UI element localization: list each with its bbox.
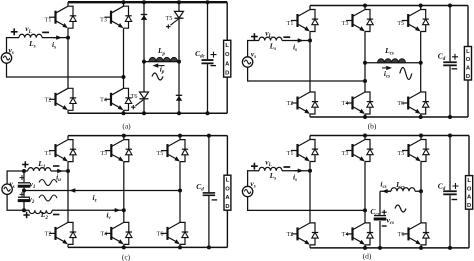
node: leg1 midpoint junction — [66, 36, 70, 40]
svg-text:D: D — [225, 204, 229, 210]
svg-text:T5: T5 — [157, 151, 164, 157]
capacitor Cd branch wire — [208, 136, 210, 248]
capacitor C1 — [18, 182, 30, 184]
inductor Ls — [259, 167, 282, 170]
svg-text:(c): (c) — [122, 253, 131, 261]
node: aux branch 1 / Lp junction — [142, 60, 146, 64]
IGBT T6 with antiparallel diode — [179, 218, 181, 222]
IGBT T2 with antiparallel diode — [309, 88, 311, 92]
svg-text:(b): (b) — [368, 122, 377, 131]
IGBT T1 with antiparallel diode — [67, 136, 69, 140]
wire: load connection verticals — [468, 136, 470, 248]
sine symbol for ics — [400, 68, 412, 80]
wire: capacitor string vertical — [23, 171, 25, 210]
wire: (a) bottom DC rail — [68, 112, 227, 114]
wire: (b) bottom DC rail — [310, 116, 468, 118]
svg-text:L: L — [225, 43, 229, 49]
wire: (d) top DC rail — [310, 135, 469, 137]
polarity labels for L2 — [23, 212, 29, 218]
label vL with polarity — [11, 28, 18, 35]
node: top rail junctions — [122, 134, 126, 138]
IGBT T5 with antiparallel diode — [420, 136, 422, 140]
node: capacitor bottom tap — [22, 208, 26, 212]
svg-text:T2: T2 — [287, 101, 294, 107]
capacitor Cdc — [202, 59, 214, 61]
AC source vs — [2, 184, 12, 194]
wire: source bottom lead to leg2 — [248, 67, 365, 81]
IGBT T2 with antiparallel diode — [67, 218, 69, 222]
wire: Lp horizontal link — [144, 61, 179, 63]
IGBT T5 with antiparallel diode — [179, 136, 181, 140]
current arrow ics — [386, 66, 392, 70]
capacitor C2 — [18, 196, 30, 198]
current arrow ics (pointing left) — [382, 189, 388, 193]
inductor L2 (bumps down) — [29, 210, 52, 213]
node: bottom rail junctions — [363, 246, 367, 250]
current arrow iz (pointing left) — [70, 188, 76, 192]
node: Ccs to bottom rail — [378, 246, 382, 250]
svg-text:T6: T6 — [131, 94, 138, 100]
label vL with polarity — [251, 163, 258, 170]
inductor Lp (filled coil) — [149, 57, 178, 61]
svg-text:T2: T2 — [287, 232, 294, 238]
svg-text:T6: T6 — [398, 232, 405, 238]
wire: leg2 midpoint vertical — [123, 31, 125, 85]
svg-text:(d): (d) — [363, 251, 372, 260]
wire: source top lead — [7, 171, 68, 184]
inductor L1 — [28, 168, 51, 171]
wire: source top lead — [248, 171, 310, 187]
svg-text:T4: T4 — [100, 97, 107, 103]
load box — [224, 40, 231, 77]
IGBT T4 with antiparallel diode — [364, 88, 366, 92]
svg-text:(a): (a) — [122, 122, 131, 131]
node: capacitor tap on top lead — [22, 169, 26, 173]
svg-text:T6: T6 — [157, 232, 164, 238]
wire: (c) top DC rail — [68, 135, 227, 137]
current arrow is — [298, 169, 304, 173]
wire: load connection verticals — [467, 6, 469, 118]
svg-text:T3: T3 — [100, 151, 107, 157]
capacitor Cd — [203, 192, 216, 194]
svg-text:L: L — [466, 49, 470, 55]
svg-text:T4: T4 — [100, 232, 107, 238]
wire: source bottom lead to leg2 — [248, 197, 365, 211]
svg-text:T6: T6 — [397, 101, 404, 107]
AC source vs — [1, 53, 11, 63]
wire: source bottom lead — [7, 194, 124, 210]
svg-text:O: O — [467, 186, 472, 192]
svg-text:T5: T5 — [398, 151, 405, 157]
AC source vs — [242, 186, 252, 196]
IGBT T1 with antiparallel diode — [309, 6, 311, 10]
svg-text:L: L — [467, 178, 471, 184]
current arrow is — [56, 35, 62, 39]
svg-text:T1: T1 — [45, 151, 52, 157]
wire: (b) top DC rail — [310, 5, 468, 7]
sine symbol for v2 — [39, 195, 57, 201]
capacitor Cdc branch wire — [207, 2, 209, 113]
svg-text:T5: T5 — [166, 16, 173, 22]
node: bottom rail junctions — [122, 245, 126, 249]
node: top rail junctions — [122, 0, 126, 4]
svg-text:T2: T2 — [45, 97, 52, 103]
load box — [224, 175, 231, 210]
wire: leg1 midpoint vertical — [67, 31, 69, 85]
svg-text:L: L — [226, 178, 230, 184]
wire: auxiliary branch 2 vertical (x=179) — [178, 2, 180, 113]
svg-text:D: D — [467, 203, 471, 209]
capacitor Cd — [443, 190, 457, 192]
IGBT T3 with antiparallel diode — [123, 2, 125, 6]
sine symbol for ip — [152, 73, 163, 80]
load box — [464, 47, 471, 81]
load box — [466, 176, 473, 210]
IGBT T2 with antiparallel diode — [309, 219, 311, 223]
inductor Lcs (filled coil) — [378, 59, 406, 63]
node: top rail junctions — [363, 4, 367, 8]
svg-text:T4: T4 — [342, 232, 349, 238]
wire: source top lead — [248, 41, 310, 57]
svg-text:T3: T3 — [342, 21, 349, 27]
diode D2 (bottom of aux branch 2) — [176, 94, 182, 96]
wire: leg midpoint verticals — [67, 165, 69, 219]
wire: (d) bottom DC rail — [310, 247, 469, 249]
IGBT T3 with antiparallel diode — [364, 136, 366, 140]
svg-text:T3: T3 — [342, 151, 349, 157]
svg-text:O: O — [225, 186, 230, 192]
node: leg2 midpoint junction — [122, 75, 126, 79]
wire: load connection verticals — [226, 2, 228, 113]
svg-text:T4: T4 — [342, 101, 349, 107]
wire: load connection verticals — [226, 136, 228, 248]
svg-text:O: O — [225, 52, 230, 58]
IGBT T4 with antiparallel diode — [364, 219, 366, 223]
wire: (a) top DC rail — [68, 1, 227, 3]
IGBT T1 with antiparallel diode — [67, 2, 69, 6]
svg-text:T3: T3 — [100, 18, 107, 24]
current arrow iu — [57, 169, 63, 173]
thyristor T5 — [175, 11, 184, 18]
wire: (c) bottom DC rail — [68, 246, 227, 248]
AC source vs — [242, 57, 252, 67]
IGBT T3 with antiparallel diode — [364, 6, 366, 10]
svg-text:T2: T2 — [45, 232, 52, 238]
node: top rail junctions — [363, 134, 367, 138]
capacitor Cd branch wire — [449, 6, 451, 118]
capacitor Cd — [443, 61, 457, 63]
svg-text:T1: T1 — [287, 151, 294, 157]
IGBT T3 with antiparallel diode — [123, 136, 125, 140]
IGBT T5 with antiparallel diode — [420, 6, 422, 10]
capacitor Ccs (polarized) — [374, 215, 386, 217]
wire: leg midpoint verticals — [309, 165, 311, 219]
svg-text:T1: T1 — [287, 21, 294, 27]
node: aux branch 2 / Lp junction — [177, 60, 181, 64]
sine symbol for ics branch — [395, 205, 406, 212]
svg-text:O: O — [466, 57, 471, 63]
svg-text:D: D — [225, 71, 229, 77]
IGBT T6 with antiparallel diode — [420, 88, 422, 92]
wire: Lcs horizontal link — [365, 62, 421, 64]
svg-text:D: D — [466, 74, 470, 80]
current arrow iv — [115, 208, 121, 212]
wire: Lcs branch horizontal — [380, 190, 421, 192]
node: capacitor midpoint — [22, 189, 26, 193]
node: leg junctions — [308, 169, 312, 173]
inductor Ls — [19, 34, 42, 37]
IGBT T1 with antiparallel diode — [309, 136, 311, 140]
inductor Lcs (open coil) — [391, 188, 415, 191]
svg-text:T5: T5 — [397, 21, 404, 27]
wire: leg midpoint verticals — [309, 35, 311, 89]
current arrow is — [298, 38, 304, 42]
IGBT T2 with antiparallel diode — [67, 84, 69, 88]
capacitor Cd branch wire — [449, 136, 451, 248]
wire: source bottom lead to leg2 — [7, 63, 124, 77]
thyristor T6 — [140, 92, 149, 99]
polarity labels for L1 — [22, 161, 28, 167]
sine symbol for v1 — [39, 180, 57, 186]
IGBT T4 with antiparallel diode — [123, 218, 125, 222]
label vL with polarity — [251, 33, 258, 40]
node: leg junctions — [308, 39, 312, 43]
wire: iz middle wire to leg3 — [24, 190, 180, 192]
node: bottom rail junctions — [122, 111, 126, 115]
node: bottom rail junctions — [363, 115, 367, 119]
inductor Ls — [259, 37, 282, 40]
diode D1 (top of aux branch 1) — [141, 14, 147, 16]
svg-text:T1: T1 — [45, 18, 52, 24]
current arrow ip — [153, 63, 159, 67]
wire: source top lead — [7, 38, 69, 53]
IGBT T6 with antiparallel diode — [420, 219, 422, 223]
node: leg junctions — [66, 169, 70, 173]
wire: Ccs vertical — [379, 191, 381, 248]
IGBT T4 with antiparallel diode — [123, 84, 125, 88]
wire: auxiliary branch 1 vertical (x=144) — [143, 2, 145, 113]
